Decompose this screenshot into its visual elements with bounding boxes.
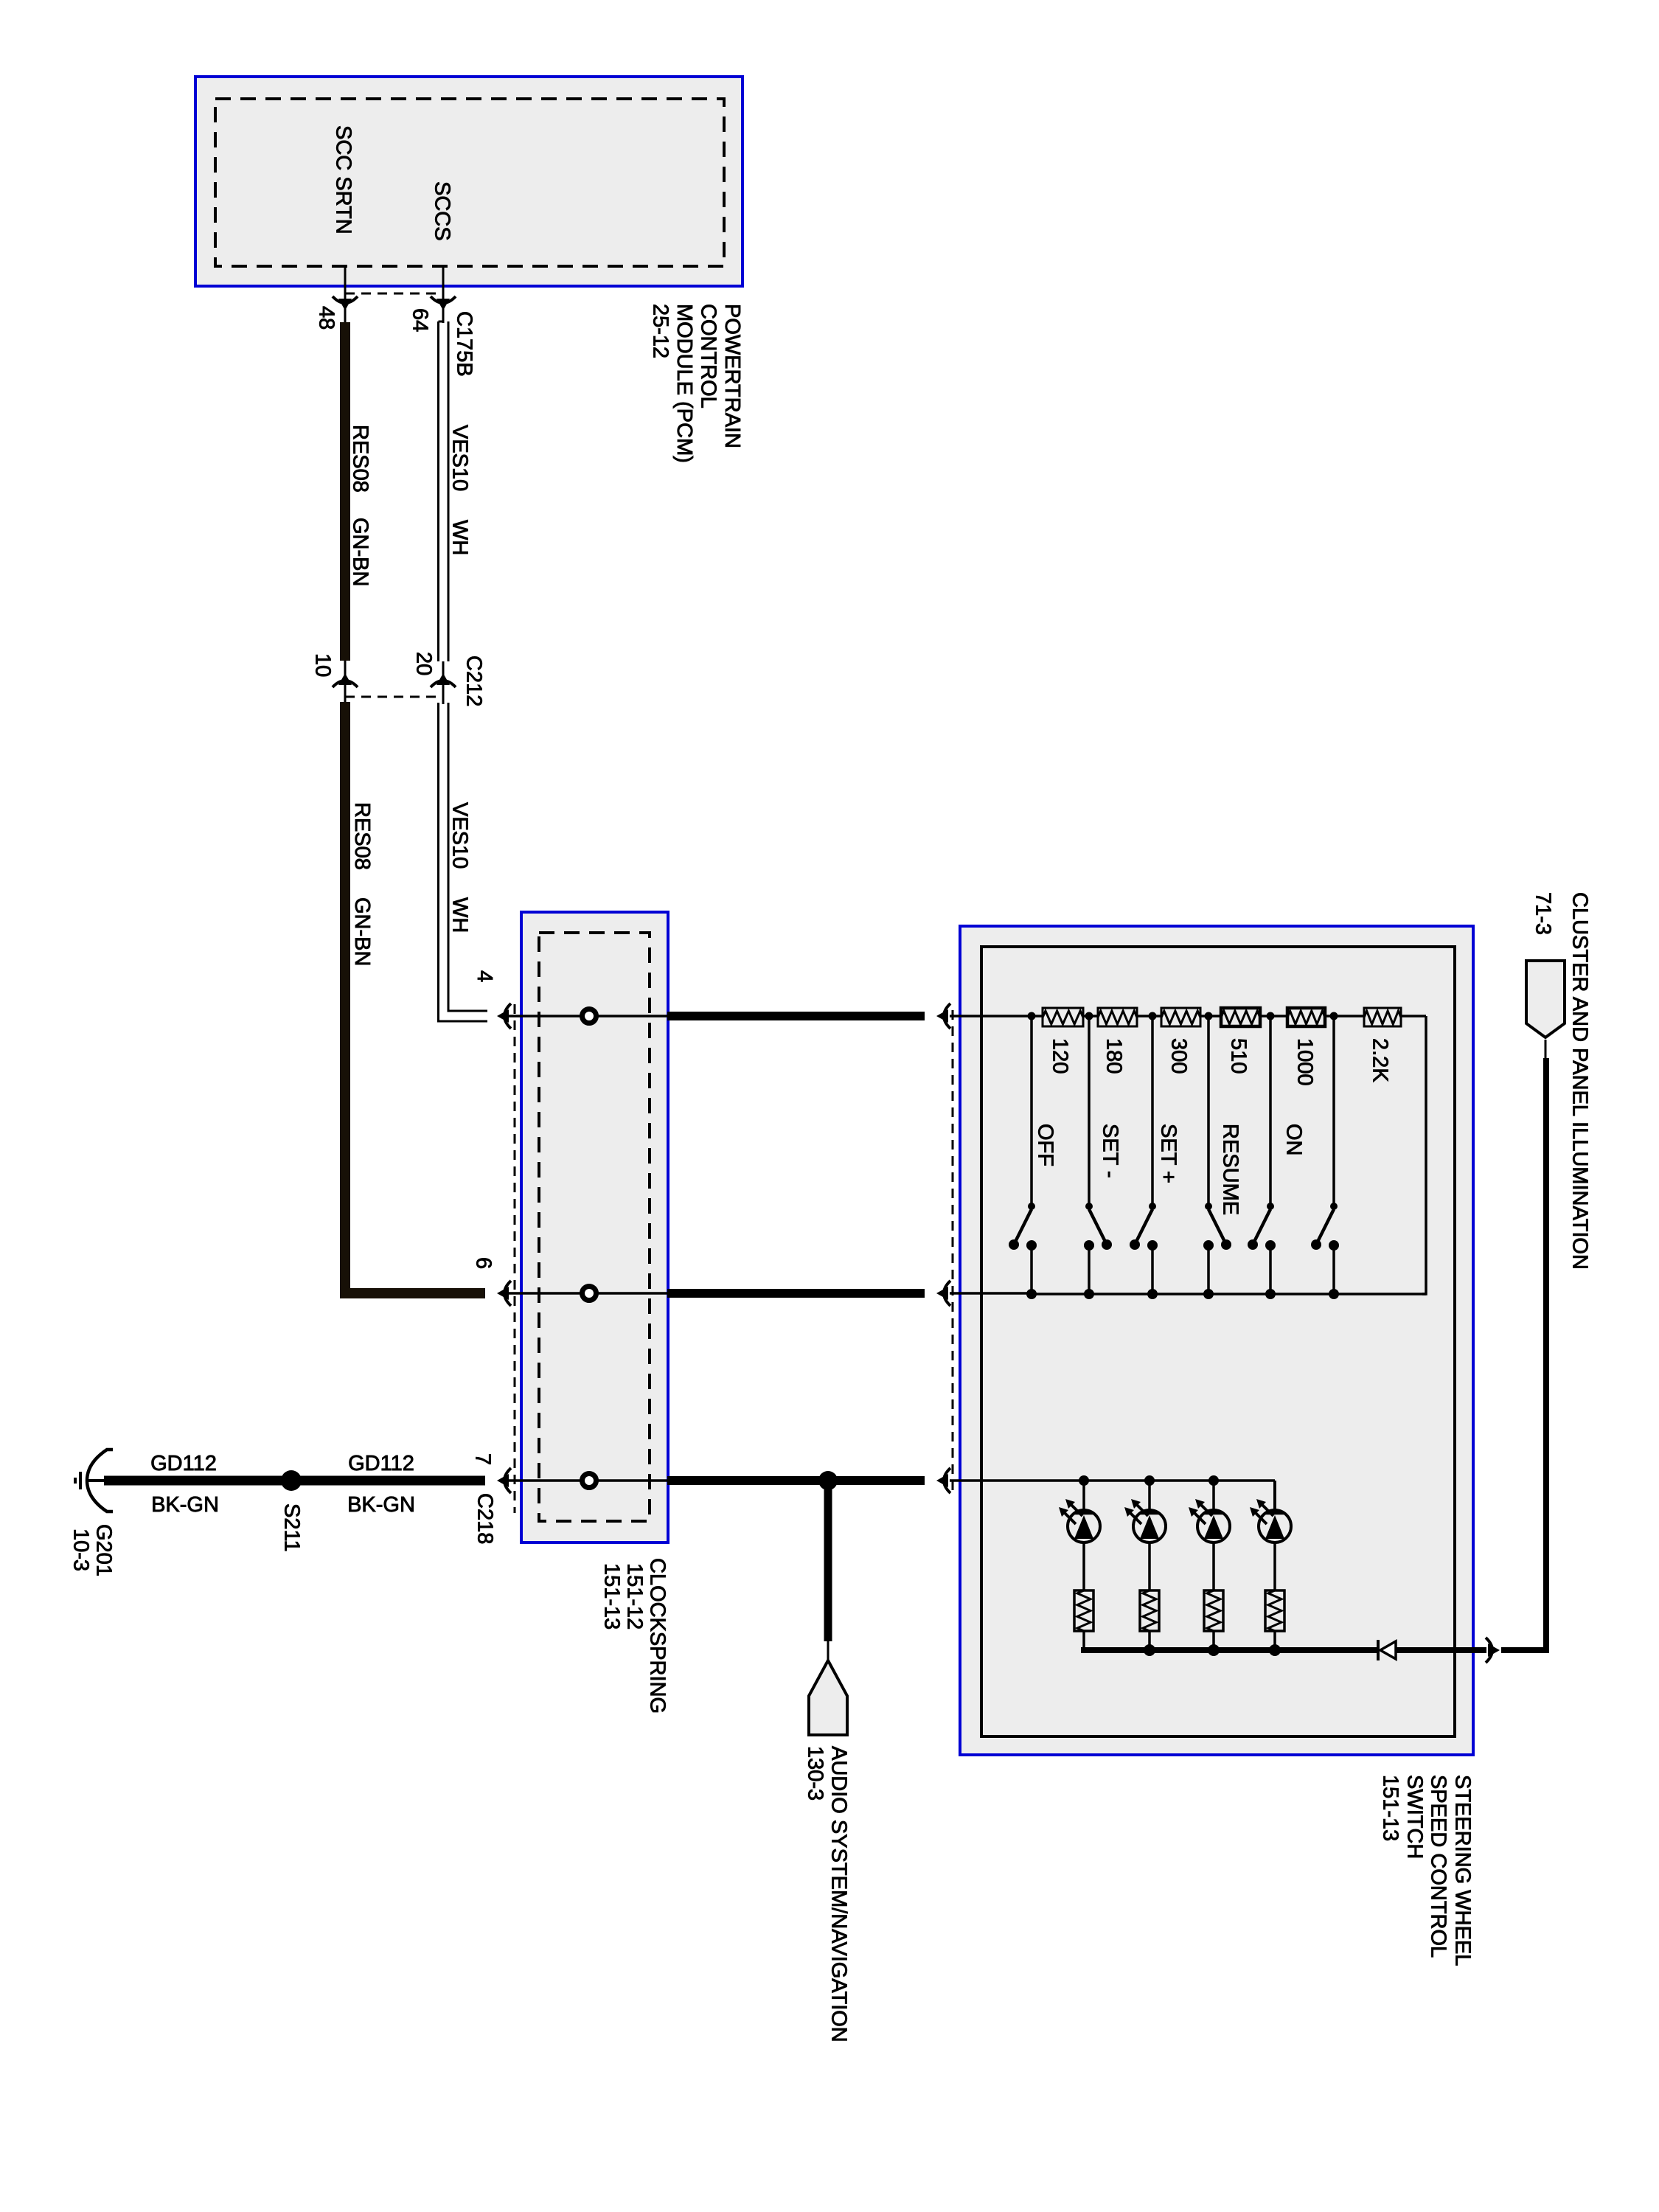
svg-text:MODULE (PCM): MODULE (PCM) xyxy=(672,304,696,463)
svg-text:64: 64 xyxy=(408,308,432,332)
wire chain right side down xyxy=(1422,1016,1426,1294)
resistor 120 xyxy=(1043,1008,1083,1026)
svg-text:151-12: 151-12 xyxy=(623,1563,647,1630)
wire: PCM pin 64 lead xyxy=(442,266,445,323)
switch OFF xyxy=(1030,1020,1033,1206)
wire through clockspring terminal (pin 4) xyxy=(509,1015,667,1018)
svg-text:7: 7 xyxy=(471,1453,495,1465)
svg-text:180: 180 xyxy=(1102,1038,1126,1074)
svg-text:25-12: 25-12 xyxy=(649,304,672,358)
svg-text:C212: C212 xyxy=(462,655,486,706)
wire LED return bus xyxy=(1084,1647,1378,1650)
svg-text:20: 20 xyxy=(412,652,436,675)
wire: PCM pin 48 lead xyxy=(344,266,347,324)
resistor 2.2K xyxy=(1364,1008,1401,1026)
svg-text:151-13: 151-13 xyxy=(600,1563,624,1630)
svg-text:SWITCH: SWITCH xyxy=(1403,1775,1427,1859)
resistor (LED 3 ballast) xyxy=(1204,1590,1223,1631)
connector C218 dashed line xyxy=(514,1004,516,1513)
junction: audio system branch xyxy=(818,1471,838,1490)
resistor 510 xyxy=(1221,1008,1260,1026)
svg-text:151-13: 151-13 xyxy=(1379,1775,1402,1841)
wire VES10 WH segment 1 (double line = white wire) xyxy=(439,321,444,323)
wire clockspring pin7 to switch box (thick) xyxy=(667,1476,925,1485)
resistor (LED 2 ballast) xyxy=(1140,1590,1159,1631)
junction node xyxy=(1028,1012,1036,1020)
clockspring terminal ring (pin 4) xyxy=(582,1009,597,1023)
resistor 1000 xyxy=(1287,1008,1325,1026)
svg-text:BK-GN: BK-GN xyxy=(151,1493,219,1517)
svg-text:GN-BN: GN-BN xyxy=(349,518,372,586)
resistor 180 xyxy=(1098,1008,1137,1026)
svg-text:120: 120 xyxy=(1048,1038,1072,1074)
off-page connector CLUSTER AND PANEL ILLUMINATION (pentagon) xyxy=(1526,961,1565,1037)
svg-text:VES10: VES10 xyxy=(448,802,472,869)
resistor 300 xyxy=(1161,1008,1200,1026)
switch RESUME xyxy=(1207,1020,1210,1206)
clockspring terminal ring (pin 7) xyxy=(582,1474,597,1488)
resistor (LED 4 ballast) xyxy=(1265,1590,1284,1631)
wire clockspring pin6 to switch box (thick) xyxy=(667,1289,925,1298)
svg-text:RESUME: RESUME xyxy=(1219,1124,1242,1215)
switch box pin (arrow left, common) xyxy=(944,1281,950,1306)
switch 2.2K branch xyxy=(1332,1020,1335,1206)
svg-text:ON: ON xyxy=(1282,1124,1306,1156)
svg-text:RES08: RES08 xyxy=(349,425,372,493)
wire xyxy=(1082,1543,1085,1590)
svg-text:OFF: OFF xyxy=(1034,1124,1057,1166)
LED 1 xyxy=(1082,1481,1085,1510)
wire resistor chain feed xyxy=(950,1015,1032,1018)
junction node xyxy=(1144,1644,1155,1656)
svg-text:CONTROL: CONTROL xyxy=(697,304,720,408)
svg-text:C218: C218 xyxy=(473,1493,497,1544)
svg-text:BK-GN: BK-GN xyxy=(347,1493,415,1517)
switch box pin (arrow left, illumination) xyxy=(944,1468,950,1493)
wire VES10 WH segment 2 (double line, corner to clockspring pin 4) xyxy=(439,703,488,1021)
junction node xyxy=(1267,1012,1275,1020)
switch inner black outline xyxy=(981,947,1455,1736)
junction node xyxy=(1205,1012,1213,1020)
wire xyxy=(1212,1631,1215,1650)
wire xyxy=(1082,1631,1085,1650)
wire xyxy=(1137,1015,1161,1018)
switch connector dashed line xyxy=(952,1010,954,1494)
wire resistor chain top xyxy=(1032,1015,1043,1018)
clockspring terminal ring (pin 6) xyxy=(582,1287,597,1301)
wire through clockspring terminal (pin 6) xyxy=(509,1292,667,1295)
wire to audio system/navigation xyxy=(824,1481,832,1641)
clockspring pin 7 (arrow left) xyxy=(504,1468,511,1493)
svg-text:1000: 1000 xyxy=(1293,1038,1317,1086)
clockspring inner dashed outline xyxy=(539,933,650,1521)
svg-text:4: 4 xyxy=(473,970,496,982)
wire xyxy=(1273,1631,1276,1650)
junction node xyxy=(1079,1475,1089,1486)
junction node xyxy=(1269,1644,1281,1656)
svg-text:S211: S211 xyxy=(280,1503,304,1552)
svg-text:WH: WH xyxy=(448,897,472,933)
wire through clockspring terminal (pin 7) xyxy=(509,1479,667,1482)
svg-text:SET -: SET - xyxy=(1099,1124,1122,1178)
junction node xyxy=(1085,1012,1093,1020)
C212 pin 20 (arrow up) xyxy=(442,661,445,704)
wire RES08 GN-BN segment 1 (thick) xyxy=(340,322,350,661)
junction node xyxy=(1208,1475,1219,1486)
svg-text:GD112: GD112 xyxy=(150,1452,217,1475)
svg-text:6: 6 xyxy=(472,1257,495,1269)
junction node xyxy=(1330,1012,1338,1020)
svg-text:71-3: 71-3 xyxy=(1531,892,1555,935)
PCM inner dashed outline xyxy=(215,99,724,266)
svg-text:SCC SRTN: SCC SRTN xyxy=(332,125,355,234)
wire diode to box edge xyxy=(1396,1647,1486,1653)
off-page connector AUDIO SYSTEM/NAVIGATION (pentagon) xyxy=(809,1660,847,1735)
svg-text:STEERING WHEEL: STEERING WHEEL xyxy=(1451,1775,1475,1966)
wire GD112 BK-GN (ground side) xyxy=(104,1476,289,1486)
wire xyxy=(1273,1543,1276,1590)
svg-text:510: 510 xyxy=(1227,1038,1251,1074)
wire to cluster illumination (thick, corner up) xyxy=(1501,1058,1546,1650)
wire clockspring pin4 to switch box (thick) xyxy=(667,1012,925,1020)
wire GD112 BK-GN (clockspring side) xyxy=(293,1476,485,1486)
wire xyxy=(1148,1543,1151,1590)
connector half symbol at PCM pin 64 (arrow down) xyxy=(431,296,456,303)
clockspring pin 4 (arrow left) xyxy=(504,1004,511,1029)
svg-text:SPEED CONTROL: SPEED CONTROL xyxy=(1427,1775,1450,1958)
svg-text:GN-BN: GN-BN xyxy=(350,897,374,966)
junction node xyxy=(1208,1644,1220,1656)
wire RES08 GN-BN segment 2 (thick, corner to clockspring pin 6) xyxy=(345,702,485,1293)
connector C175B dashed line xyxy=(345,293,443,295)
resistor (LED 1 ballast) xyxy=(1074,1590,1093,1631)
wire switch common bus xyxy=(950,1292,1032,1295)
svg-text:10: 10 xyxy=(311,653,335,677)
LED 3 xyxy=(1212,1481,1215,1510)
component box: CLOCKSPRING xyxy=(521,912,668,1543)
LED 2 xyxy=(1148,1481,1151,1510)
junction node xyxy=(1149,1012,1157,1020)
svg-text:SET +: SET + xyxy=(1157,1124,1180,1183)
switch box pin (arrow left, resistor feed) xyxy=(944,1004,950,1029)
svg-text:WH: WH xyxy=(448,520,472,555)
splice S211 xyxy=(281,1470,302,1491)
wire xyxy=(1148,1631,1151,1650)
wire xyxy=(1212,1543,1215,1590)
wire xyxy=(1401,1015,1426,1018)
svg-text:GD112: GD112 xyxy=(348,1452,414,1475)
connector C212 dashed line xyxy=(345,696,443,698)
svg-text:CLUSTER AND PANEL ILLUMINATION: CLUSTER AND PANEL ILLUMINATION xyxy=(1568,892,1592,1270)
switch SET - xyxy=(1088,1020,1091,1206)
svg-text:VES10: VES10 xyxy=(448,425,472,491)
component box: STEERING WHEEL SPEED CONTROL SWITCH xyxy=(960,926,1473,1755)
ground symbol G201 xyxy=(87,1450,113,1512)
wire xyxy=(1325,1015,1364,1018)
svg-text:AUDIO SYSTEM/NAVIGATION: AUDIO SYSTEM/NAVIGATION xyxy=(827,1746,851,2042)
wire xyxy=(1260,1015,1287,1018)
diode (illumination) xyxy=(1377,1640,1380,1660)
module box: POWERTRAIN CONTROL MODULE (PCM) xyxy=(195,77,742,286)
switch ON xyxy=(1269,1020,1272,1206)
switch box pin (arrow right, illumination out) xyxy=(1486,1638,1492,1663)
svg-text:G201: G201 xyxy=(92,1524,116,1576)
connector half symbol at PCM pin 48 (arrow down) xyxy=(333,296,358,303)
svg-text:130-3: 130-3 xyxy=(804,1746,827,1801)
wire xyxy=(1200,1015,1221,1018)
junction node xyxy=(1144,1475,1155,1486)
svg-text:CLOCKSPRING: CLOCKSPRING xyxy=(646,1558,669,1714)
svg-text:48: 48 xyxy=(315,306,338,330)
clockspring pin 6 (arrow left) xyxy=(504,1281,511,1306)
svg-text:C175B: C175B xyxy=(453,311,476,377)
wire LED feed bus xyxy=(950,1479,1275,1482)
svg-text:10-3: 10-3 xyxy=(69,1528,93,1571)
wire xyxy=(1083,1015,1098,1018)
svg-text:POWERTRAIN: POWERTRAIN xyxy=(720,304,744,448)
switch SET + xyxy=(1151,1020,1154,1206)
svg-text:2.2K: 2.2K xyxy=(1368,1038,1392,1082)
C212 pin 10 (arrow up) xyxy=(344,661,347,704)
LED 4 xyxy=(1273,1481,1276,1510)
svg-text:RES08: RES08 xyxy=(350,802,374,870)
svg-text:SCCS: SCCS xyxy=(431,181,454,241)
svg-text:300: 300 xyxy=(1167,1038,1191,1074)
